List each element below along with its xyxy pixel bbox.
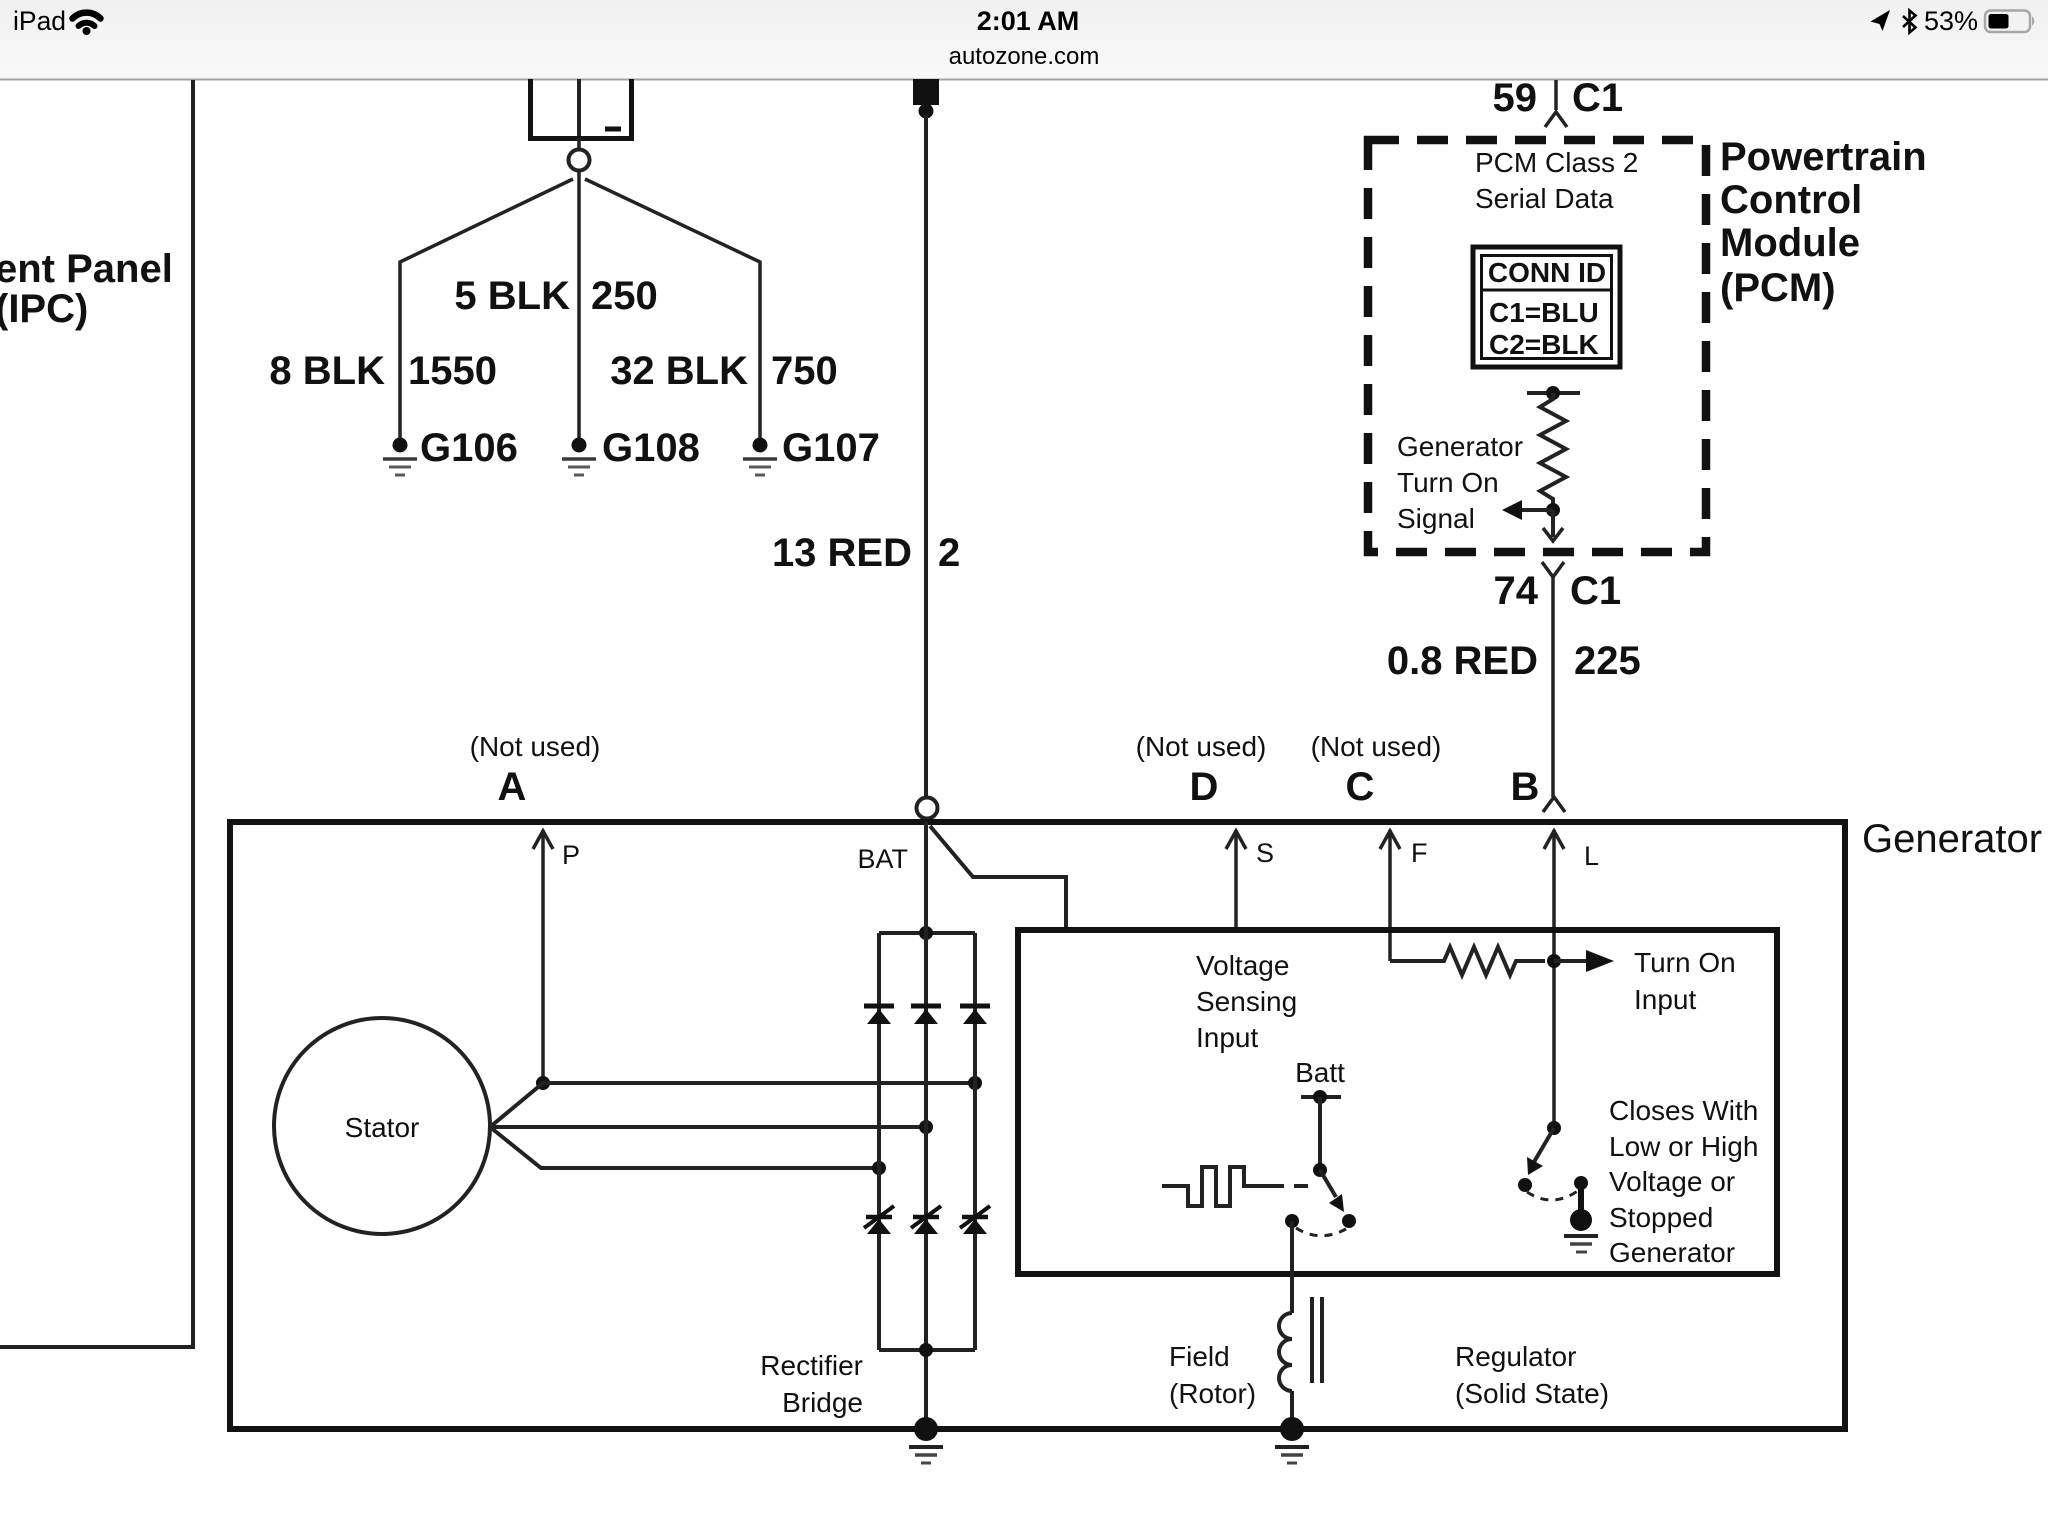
status bar battery icon bbox=[1985, 11, 2030, 33]
svg-text:Closes With: Closes With bbox=[1609, 1095, 1758, 1126]
L switch dashed travel arc bbox=[1527, 1190, 1579, 1200]
svg-text:S: S bbox=[1256, 838, 1274, 868]
svg-text:13 RED: 13 RED bbox=[772, 531, 912, 575]
svg-text:G108: G108 bbox=[602, 426, 700, 470]
svg-text:PCM Class 2: PCM Class 2 bbox=[1475, 147, 1638, 178]
BAT wire into regulator bbox=[930, 826, 1066, 930]
ground G107 bbox=[743, 438, 777, 476]
svg-text:(Solid State): (Solid State) bbox=[1455, 1378, 1609, 1409]
zener diode Z3 (right lower) bbox=[960, 1206, 990, 1234]
svg-text:G107: G107 bbox=[782, 426, 880, 470]
junction dot L and turn-on wire bbox=[1547, 954, 1561, 968]
svg-text:53%: 53% bbox=[1924, 6, 1978, 36]
battery feed connector (black) bbox=[913, 79, 939, 105]
left arrow to Generator Turn On Signal bbox=[1521, 508, 1553, 512]
wire divider inside connector box bbox=[577, 79, 581, 136]
svg-text:iPad: iPad bbox=[13, 6, 66, 36]
Batt switch wire bbox=[1318, 1097, 1322, 1170]
stator winding 3 wire bbox=[490, 1127, 879, 1168]
svg-text:Turn On: Turn On bbox=[1397, 467, 1499, 498]
connector symbol at B terminal bbox=[1543, 797, 1565, 812]
svg-text:Generator: Generator bbox=[1397, 431, 1523, 462]
svg-text:Signal: Signal bbox=[1397, 503, 1475, 534]
arrow to Turn On Input bbox=[1554, 959, 1588, 963]
PWM pulse waveform bbox=[1162, 1167, 1284, 1206]
svg-text:C2=BLK: C2=BLK bbox=[1489, 329, 1599, 360]
IPC connector box (top, partially hidden) bbox=[531, 79, 632, 139]
svg-text:Serial Data: Serial Data bbox=[1475, 183, 1614, 214]
wire to G106 bbox=[400, 179, 573, 438]
svg-text:(Rotor): (Rotor) bbox=[1169, 1378, 1256, 1409]
ground G108 bbox=[562, 438, 596, 476]
svg-text:225: 225 bbox=[1574, 639, 1641, 683]
svg-text:Stopped: Stopped bbox=[1609, 1202, 1713, 1233]
status bar bluetooth icon bbox=[1903, 11, 1916, 33]
connector symbol 74 C1 bbox=[1542, 562, 1564, 577]
svg-text:Rectifier: Rectifier bbox=[760, 1350, 863, 1381]
svg-text:Powertrain: Powertrain bbox=[1720, 135, 1927, 179]
svg-text:8 BLK: 8 BLK bbox=[269, 349, 385, 393]
junction dot at resistor bottom bbox=[1546, 503, 1560, 517]
svg-text:autozone.com: autozone.com bbox=[949, 43, 1100, 70]
terminal arrow L bbox=[1552, 830, 1556, 1128]
svg-text:BAT: BAT bbox=[857, 844, 908, 874]
stator circle bbox=[274, 1018, 490, 1234]
terminal arrow F bbox=[1388, 830, 1392, 961]
junction dot P to stator bbox=[536, 1076, 550, 1090]
field ground symbol bbox=[1275, 1447, 1309, 1463]
field coil (rotor) bbox=[1279, 1313, 1292, 1391]
stub to ground bbox=[1578, 1183, 1584, 1212]
bridge ground symbol bbox=[909, 1447, 943, 1463]
svg-text:Sensing: Sensing bbox=[1196, 986, 1297, 1017]
svg-text:Bridge: Bridge bbox=[782, 1387, 863, 1418]
Batt switch right contact dot bbox=[1342, 1214, 1356, 1228]
svg-text:(Not used): (Not used) bbox=[470, 731, 601, 762]
svg-text:750: 750 bbox=[771, 349, 838, 393]
PCM dashed box bbox=[1368, 140, 1706, 552]
diode D1 (left upper) bbox=[864, 1006, 894, 1024]
field winding wire from switch bbox=[1290, 1221, 1294, 1313]
dashed link waveform to switch bbox=[1294, 1184, 1310, 1188]
svg-text:(IPC): (IPC) bbox=[0, 287, 88, 331]
svg-text:Turn On: Turn On bbox=[1634, 947, 1736, 978]
svg-text:1550: 1550 bbox=[408, 349, 497, 393]
Batt switch dashed travel arc bbox=[1296, 1228, 1346, 1236]
svg-text:C: C bbox=[1346, 765, 1375, 809]
svg-text:2:01 AM: 2:01 AM bbox=[977, 6, 1080, 36]
generator box bbox=[230, 822, 1845, 1429]
svg-text:0.8 RED: 0.8 RED bbox=[1387, 639, 1538, 683]
svg-text:C1: C1 bbox=[1572, 76, 1623, 120]
svg-text:32 BLK: 32 BLK bbox=[610, 349, 748, 393]
svg-text:Input: Input bbox=[1196, 1022, 1258, 1053]
Batt switch pivot dot bbox=[1313, 1163, 1327, 1177]
svg-text:C1: C1 bbox=[1570, 569, 1621, 613]
svg-text:ent Panel: ent Panel bbox=[0, 247, 173, 291]
rectifier bridge top bar bbox=[879, 931, 975, 935]
L switch pivot dot bbox=[1547, 1121, 1561, 1135]
svg-text:A: A bbox=[498, 765, 527, 809]
rectifier bridge bottom bar bbox=[879, 1348, 975, 1352]
svg-text:C1=BLU: C1=BLU bbox=[1489, 297, 1599, 328]
L switch left contact dot bbox=[1518, 1178, 1532, 1192]
turn-on input resistor bbox=[1390, 947, 1545, 975]
CONN ID table box bbox=[1473, 247, 1620, 367]
wire to G108 bbox=[577, 171, 581, 438]
L switch arm with arrowhead bbox=[1534, 1128, 1554, 1162]
svg-text:Stator: Stator bbox=[345, 1112, 420, 1143]
svg-text:B: B bbox=[1511, 765, 1540, 809]
status bar background bbox=[0, 0, 2048, 79]
connector symbol 59 C1 bbox=[1554, 80, 1558, 110]
rectifier bridge mid rail bbox=[924, 822, 928, 1419]
svg-text:59: 59 bbox=[1493, 76, 1538, 120]
wire 0.8 RED 225 bbox=[1551, 577, 1555, 797]
svg-text:Control: Control bbox=[1720, 178, 1862, 222]
node circle at BAT terminal bbox=[917, 798, 938, 819]
svg-text:L: L bbox=[1584, 841, 1599, 871]
bridge ground dot on generator box bbox=[914, 1417, 938, 1441]
Batt switch left contact dot bbox=[1285, 1214, 1299, 1228]
svg-text:(Not used): (Not used) bbox=[1136, 731, 1267, 762]
minus polarity mark bbox=[605, 127, 621, 132]
wire to G107 bbox=[585, 179, 760, 438]
svg-text:Voltage or: Voltage or bbox=[1609, 1166, 1735, 1197]
svg-text:5 BLK: 5 BLK bbox=[454, 274, 570, 318]
node bar above resistor bbox=[1527, 391, 1580, 395]
svg-text:(Not used): (Not used) bbox=[1311, 731, 1442, 762]
terminal arrow S bbox=[1234, 830, 1238, 930]
svg-text:Field: Field bbox=[1169, 1341, 1230, 1372]
zener diode Z2 (mid lower) bbox=[911, 1206, 941, 1234]
stator winding 2 wire bbox=[490, 1125, 926, 1129]
svg-text:74: 74 bbox=[1494, 569, 1539, 613]
field ground dot on generator box bbox=[1280, 1417, 1304, 1441]
status bar location arrow bbox=[1871, 10, 1891, 31]
svg-text:(PCM): (PCM) bbox=[1720, 266, 1836, 310]
svg-text:G106: G106 bbox=[420, 426, 518, 470]
svg-text:CONN ID: CONN ID bbox=[1488, 257, 1606, 288]
svg-text:F: F bbox=[1411, 838, 1428, 868]
diode D2 (mid upper) bbox=[911, 1006, 941, 1024]
rectifier bridge left rail bbox=[877, 933, 881, 1350]
resistor generator turn-on signal bbox=[1540, 393, 1566, 510]
svg-text:250: 250 bbox=[591, 274, 658, 318]
svg-text:D: D bbox=[1190, 765, 1219, 809]
svg-text:Module: Module bbox=[1720, 221, 1860, 265]
diode D3 (right upper) bbox=[960, 1006, 990, 1024]
splice node circle S206 bbox=[569, 150, 590, 171]
wire coil to ground bbox=[1290, 1391, 1294, 1420]
Batt switch arm with arrowhead bbox=[1320, 1170, 1336, 1197]
status bar wifi icon bbox=[73, 13, 101, 35]
rectifier bridge right rail bbox=[973, 933, 977, 1350]
down arrow to 74 C1 bbox=[1551, 510, 1555, 537]
svg-text:Batt: Batt bbox=[1295, 1057, 1345, 1088]
terminal arrow P bbox=[541, 830, 545, 1083]
Batt terminal bar bbox=[1301, 1095, 1341, 1099]
ground G106 bbox=[383, 438, 417, 476]
stator winding 1 wire bbox=[490, 1083, 975, 1127]
svg-text:Regulator: Regulator bbox=[1455, 1341, 1576, 1372]
ground symbol (L switch) bbox=[1564, 1236, 1598, 1252]
svg-text:Generator: Generator bbox=[1609, 1237, 1735, 1268]
svg-text:Voltage: Voltage bbox=[1196, 950, 1289, 981]
zener diode Z1 (left lower) bbox=[864, 1206, 894, 1234]
svg-text:2: 2 bbox=[938, 531, 960, 575]
L switch right contact dot bbox=[1574, 1176, 1588, 1190]
svg-text:Input: Input bbox=[1634, 984, 1696, 1015]
regulator box bbox=[1018, 930, 1777, 1274]
svg-text:Generator: Generator bbox=[1862, 817, 2042, 861]
svg-text:P: P bbox=[562, 840, 580, 870]
wire 13 RED 2 bbox=[924, 115, 928, 797]
svg-text:Low or High: Low or High bbox=[1609, 1131, 1758, 1162]
instrument panel IPC box bbox=[0, 80, 193, 1347]
ground dot (stopped generator) bbox=[1570, 1209, 1592, 1231]
field core lines bbox=[1310, 1297, 1314, 1383]
